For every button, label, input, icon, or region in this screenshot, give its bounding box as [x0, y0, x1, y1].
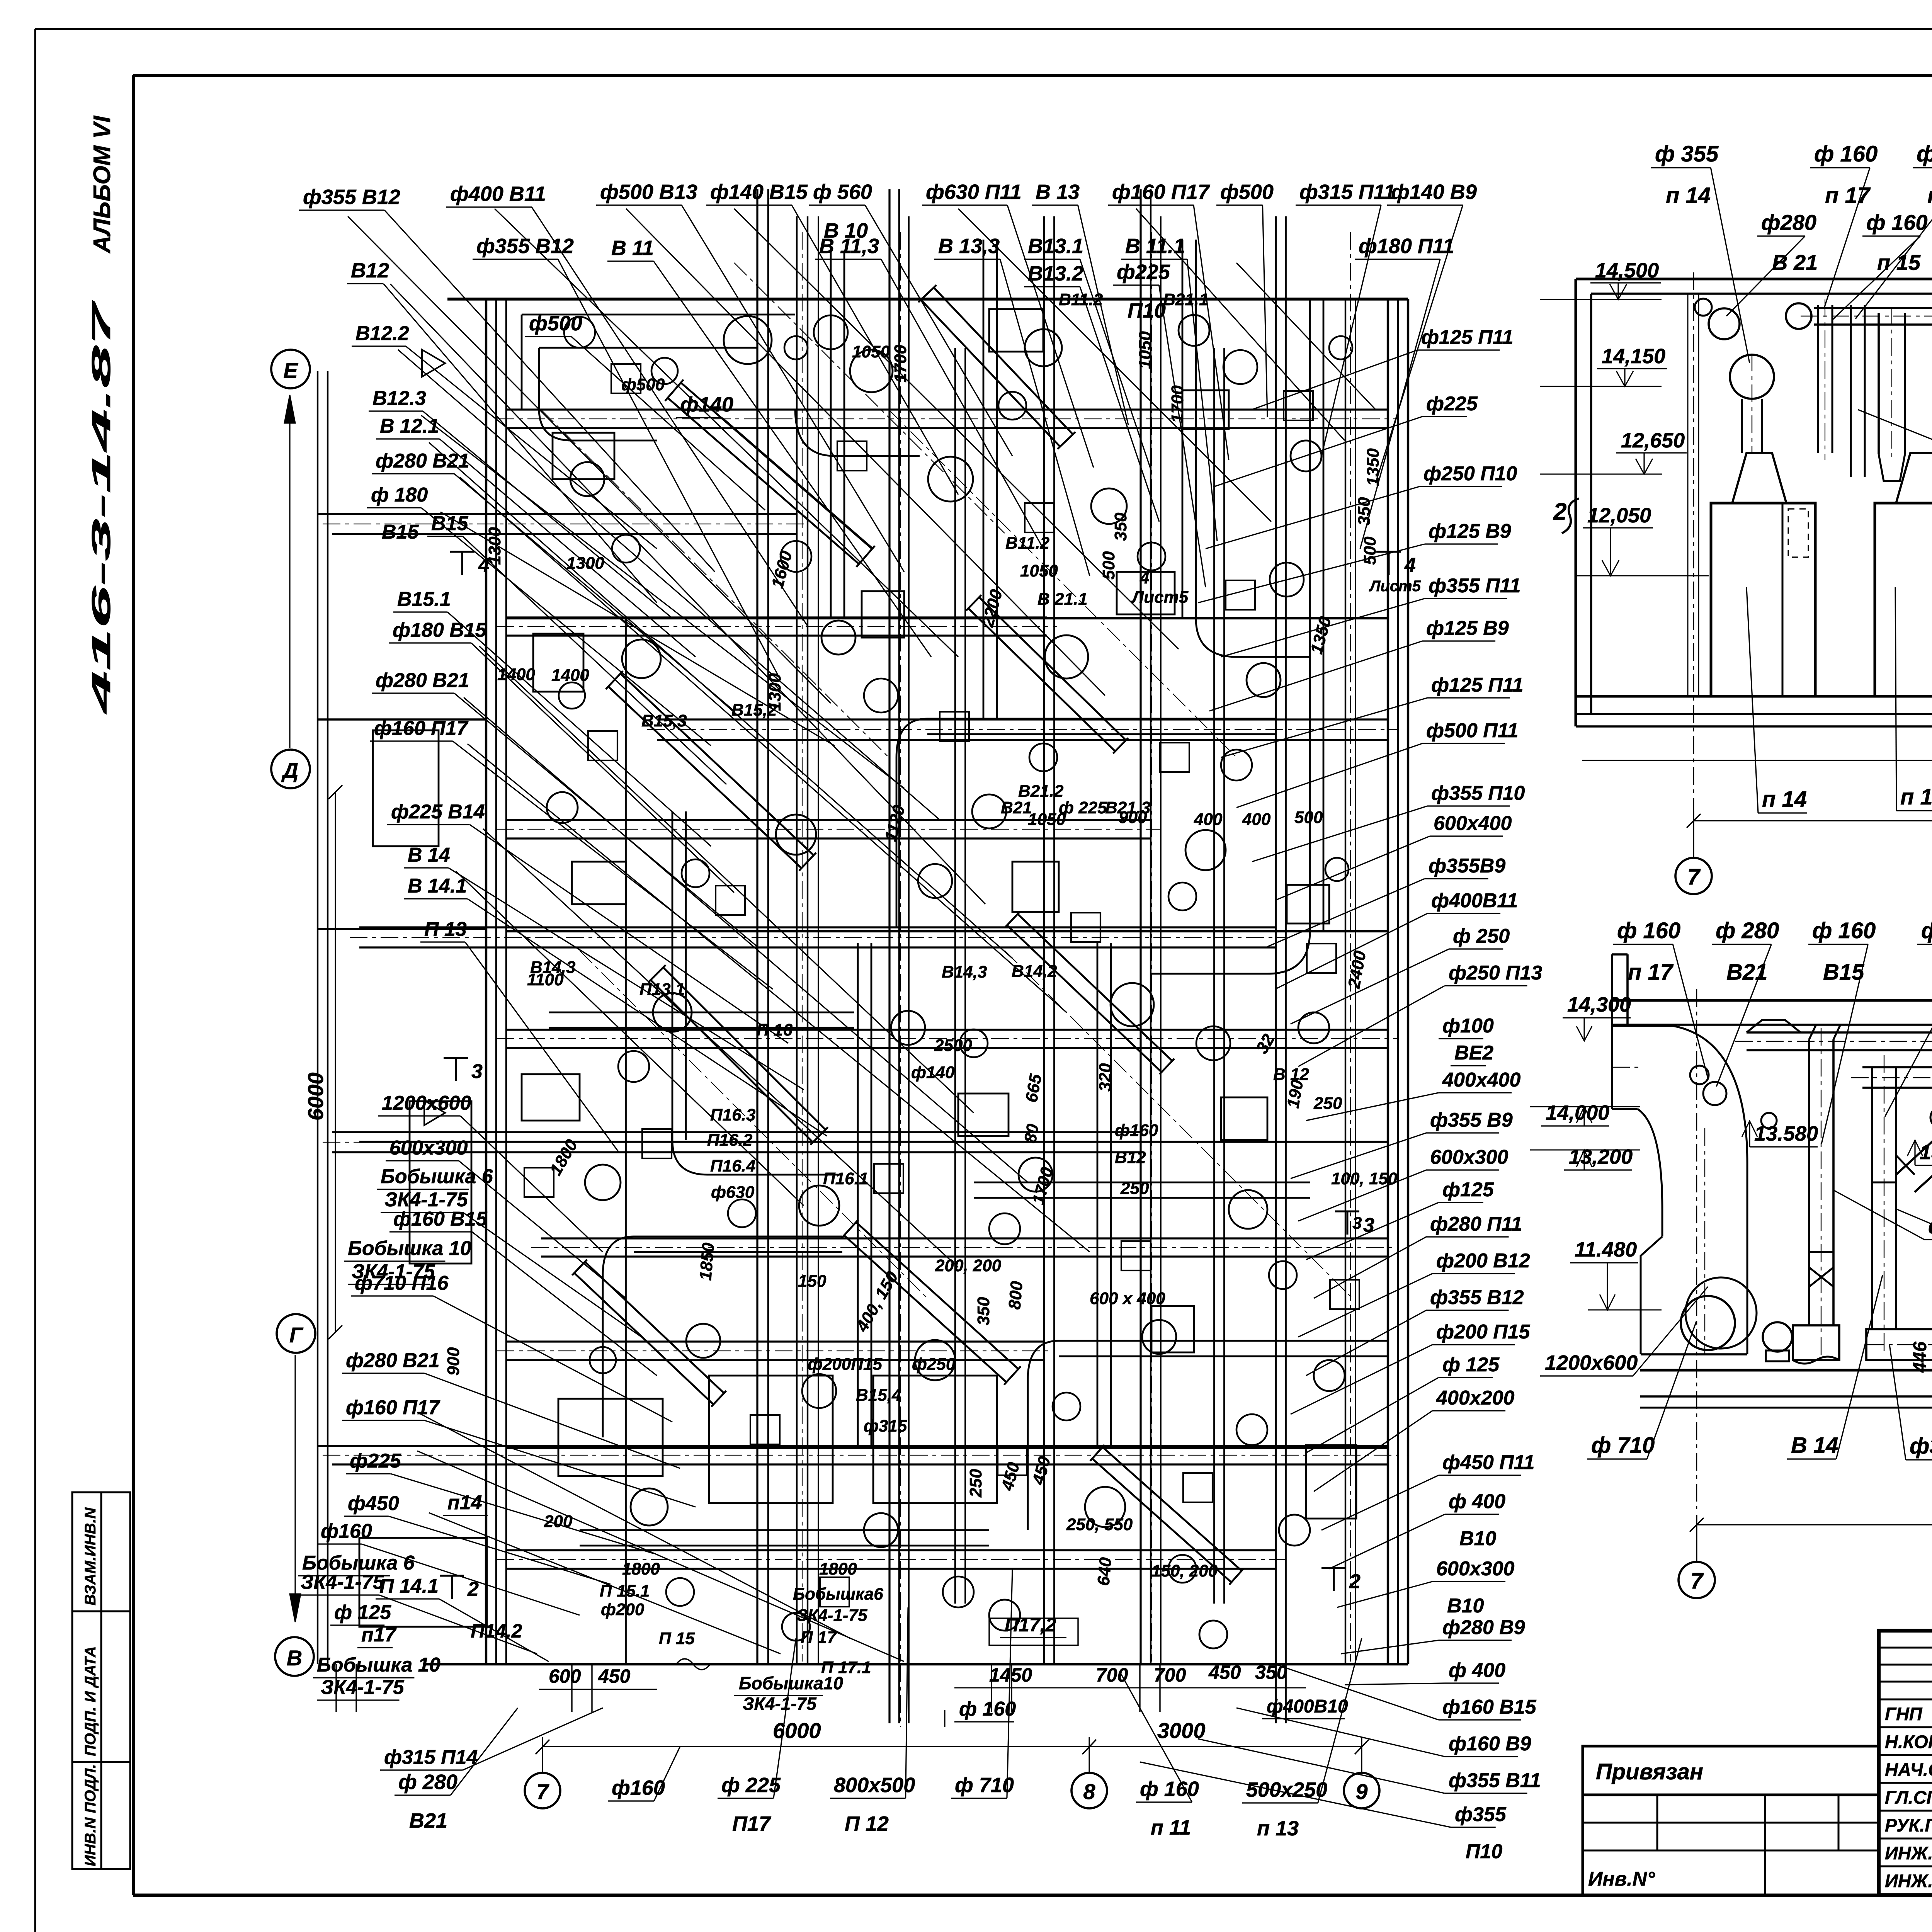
svg-text:В 11,3: В 11,3: [819, 235, 879, 258]
equipment box 2980,3380: [1151, 1306, 1194, 1352]
plan grid bubbles 7 8 9: [542, 1757, 543, 1773]
svg-text:ф 160: ф 160: [1617, 918, 1680, 943]
interior partition walls: [506, 617, 1388, 619]
damper circle В21: [1709, 308, 1740, 339]
svg-text:ф280 П11: ф280 П11: [1430, 1213, 1522, 1235]
svg-text:В 14: В 14: [408, 844, 450, 866]
svg-text:ф140 В15: ф140 В15: [710, 180, 808, 204]
svg-text:ф315 П11: ф315 П11: [1299, 180, 1395, 204]
equipment box 1060,2850: [410, 1101, 471, 1264]
svg-text:Г: Г: [289, 1323, 304, 1347]
svg-text:ЗК4-1-75: ЗК4-1-75: [743, 1694, 817, 1714]
equipment box 2480,2830: [958, 1094, 1009, 1136]
equipment box 1835,3560: [709, 1376, 833, 1503]
svg-text:6000: 6000: [303, 1072, 328, 1121]
svg-text:150, 200: 150, 200: [1151, 1561, 1218, 1580]
duct section circle 2930,2600: [1111, 983, 1154, 1026]
svg-text:9: 9: [1355, 1779, 1367, 1804]
svg-text:450: 450: [598, 1665, 631, 1687]
svg-text:4: 4: [478, 554, 490, 577]
svg-text:600х300: 600х300: [1436, 1558, 1515, 1580]
svg-text:ф315 П14: ф315 П14: [384, 1746, 478, 1769]
svg-text:ф450: ф450: [348, 1492, 399, 1515]
duct run y1330: [332, 513, 796, 515]
duct section circle 2680,3040: [1019, 1158, 1053, 1192]
svg-text:ф160: ф160: [321, 1520, 372, 1543]
svg-text:ф 160: ф 160: [1814, 141, 1878, 167]
equipment box 1445,3620: [558, 1399, 663, 1476]
svg-text:ф125 В9: ф125 В9: [1426, 617, 1509, 639]
section 2-2 column axis 7: [1693, 272, 1694, 811]
svg-text:В: В: [287, 1646, 302, 1670]
svg-text:ф 400: ф 400: [1449, 1490, 1505, 1513]
svg-text:600 х 400: 600 х 400: [1090, 1289, 1165, 1308]
svg-text:ф280 В21: ф280 В21: [376, 669, 469, 692]
section 2-2 left wall: [1575, 279, 1577, 726]
svg-text:416-3-14.87: 416-3-14.87: [87, 300, 116, 715]
duct section circle 3380,1180: [1291, 440, 1321, 471]
svg-text:ПОДП. И ДАТА: ПОДП. И ДАТА: [82, 1646, 99, 1756]
duct run y4012: [506, 1549, 1275, 1551]
section 3-3 floor slab: [1640, 1369, 1932, 1372]
svg-text:ф160: ф160: [1115, 1121, 1158, 1140]
svg-text:ф225 В14: ф225 В14: [391, 801, 485, 823]
section mark 3 left: [444, 1057, 468, 1059]
equipment box 930,3980: [359, 1538, 487, 1627]
svg-text:ф 710: ф 710: [955, 1774, 1014, 1797]
duct section circle 1820,3470: [686, 1324, 720, 1358]
svg-text:ЗК4-1-75: ЗК4-1-75: [321, 1676, 405, 1699]
svg-text:Бобышка 10: Бобышка 10: [317, 1654, 440, 1676]
svg-text:ф160 В9: ф160 В9: [1449, 1733, 1531, 1755]
duct section circle 3000,3460: [1142, 1320, 1176, 1354]
svg-text:В13.1: В13.1: [1028, 235, 1083, 258]
svg-text:7: 7: [536, 1779, 549, 1804]
duct section circle 2870,1310: [1091, 488, 1127, 524]
svg-text:В12: В12: [1115, 1148, 1146, 1167]
duct section circle 3270,1760: [1247, 663, 1281, 697]
svg-text:7: 7: [1687, 864, 1701, 889]
diagonal duct 1700,2520: [651, 980, 813, 1142]
big round duct ф710 elbow: [1612, 1025, 1673, 1027]
svg-text:В21: В21: [409, 1809, 447, 1832]
duct section circle 3400,2660: [1298, 1012, 1329, 1043]
svg-text:350: 350: [974, 1297, 993, 1325]
svg-text:Лист5: Лист5: [1131, 588, 1189, 607]
duct section circle 3090,855: [1179, 315, 1209, 346]
svg-text:ф280 В21: ф280 В21: [346, 1349, 440, 1372]
svg-text:п14: п14: [447, 1492, 482, 1514]
svg-text:700: 700: [1154, 1664, 1186, 1686]
svg-text:В12.3: В12.3: [372, 387, 426, 410]
duct run y1060: [506, 408, 1387, 410]
section 3-3 ceiling slab: [1612, 999, 1932, 1002]
svg-text:ф125 П11: ф125 П11: [1421, 326, 1514, 349]
svg-text:В21: В21: [1001, 798, 1032, 817]
duct section circle 2060,4210: [782, 1613, 810, 1641]
duct section circle 2700,900: [1025, 329, 1062, 366]
svg-text:12,650: 12,650: [1621, 429, 1685, 452]
svg-text:Бобышка6: Бобышка6: [793, 1585, 883, 1604]
svg-text:В12.2: В12.2: [355, 322, 409, 345]
svg-text:ф140 В9: ф140 В9: [1391, 180, 1477, 204]
section 2-2 ground line: [1582, 760, 1932, 761]
svg-text:Д: Д: [281, 758, 298, 782]
svg-text:250: 250: [1313, 1094, 1342, 1113]
unit п17 riser duct: [1878, 313, 1880, 454]
duct section circle 2120,3120: [799, 1185, 839, 1226]
svg-text:ф 160: ф 160: [959, 1698, 1016, 1720]
svg-text:ф200: ф200: [601, 1600, 645, 1619]
svg-text:150: 150: [798, 1272, 827, 1291]
svg-text:п17: п17: [361, 1624, 397, 1646]
svg-text:ф315: ф315: [864, 1417, 907, 1435]
svg-text:В 14: В 14: [1791, 1433, 1838, 1458]
svg-text:3: 3: [1352, 1214, 1362, 1233]
duct run y2400: [359, 926, 1275, 928]
svg-text:п 17: п 17: [1628, 959, 1674, 985]
svg-text:В14,2: В14,2: [1012, 962, 1057, 981]
В15 fan unit at floor: [1793, 1325, 1839, 1360]
svg-text:ф 560: ф 560: [813, 180, 872, 204]
svg-text:ГЛ.СП.: ГЛ.СП.: [1885, 1787, 1932, 1808]
svg-text:12,050: 12,050: [1587, 504, 1651, 527]
axis arrow Д-Е: [289, 398, 290, 748]
duct section circle 1935,880: [724, 316, 772, 364]
svg-text:В 14.1: В 14.1: [408, 875, 467, 897]
svg-text:п 13: п 13: [1257, 1817, 1299, 1840]
svg-text:400: 400: [1242, 810, 1271, 829]
svg-text:13,200: 13,200: [1569, 1145, 1633, 1168]
svg-text:ф160 П17: ф160 П17: [374, 717, 469, 740]
diagonal duct 1745,1010: [668, 398, 859, 564]
svg-text:14,500: 14,500: [1595, 259, 1659, 282]
svg-text:В15: В15: [382, 521, 419, 543]
svg-text:4: 4: [1404, 554, 1416, 577]
equipment box 2560,800: [989, 309, 1043, 352]
svg-text:ф 225: ф 225: [1059, 798, 1107, 817]
row axis Г: [277, 1314, 315, 1353]
svg-text:В10: В10: [1447, 1595, 1484, 1617]
svg-text:ф200 П15: ф200 П15: [1436, 1321, 1531, 1343]
svg-text:Е: Е: [283, 358, 298, 383]
svg-text:400х200: 400х200: [1436, 1387, 1515, 1409]
direction triangles: [422, 350, 445, 377]
svg-text:В 13,3: В 13,3: [938, 235, 1000, 258]
diagonal duct 2400,760: [921, 300, 1060, 447]
svg-text:250, 550: 250, 550: [1066, 1515, 1133, 1534]
svg-text:ф250: ф250: [912, 1355, 956, 1374]
svg-text:ф280 В9: ф280 В9: [1442, 1616, 1525, 1639]
section 2-2 floor slab: [1576, 695, 1932, 698]
svg-text:В14,3: В14,3: [530, 958, 575, 977]
duct section circle 2460,1240: [928, 457, 973, 502]
duct section circle 2420,3520: [915, 1340, 955, 1380]
duct run y3205: [541, 1237, 1387, 1239]
svg-text:ГНП: ГНП: [1885, 1704, 1923, 1724]
diagonal duct 1500,3280: [574, 1273, 713, 1405]
svg-text:ф125 В9: ф125 В9: [1429, 520, 1511, 543]
svg-text:п 14: п 14: [1762, 787, 1807, 812]
svg-text:400х400: 400х400: [1442, 1069, 1521, 1091]
duct section circle 3350,3960: [1279, 1515, 1310, 1546]
svg-text:400: 400: [1194, 810, 1223, 829]
equipment box 1350,2780: [522, 1074, 580, 1121]
svg-text:В21: В21: [1726, 959, 1767, 985]
svg-text:13,530: 13,530: [1920, 1141, 1932, 1164]
svg-text:ф355 П11: ф355 П11: [1429, 575, 1521, 597]
svg-text:В21.1: В21.1: [1163, 290, 1208, 309]
svg-text:АЛЬБОМ VI: АЛЬБОМ VI: [89, 115, 116, 254]
svg-text:ф 180: ф 180: [371, 484, 428, 506]
svg-text:ф500 В13: ф500 В13: [600, 180, 697, 204]
plan centerline risers: [802, 232, 803, 1662]
equipment box 1430,1120: [553, 433, 614, 479]
svg-text:800: 800: [1005, 1280, 1026, 1310]
svg-text:Бобышка 10: Бобышка 10: [348, 1237, 471, 1260]
svg-text:900: 900: [444, 1347, 463, 1376]
row axis В: [275, 1637, 314, 1676]
svg-text:П 13: П 13: [424, 918, 467, 940]
plan dashed diagonals: [541, 410, 889, 757]
duct section circle 1740,2620: [653, 993, 692, 1032]
section mark 4 right: [1376, 551, 1401, 553]
svg-text:Привязан: Привязан: [1596, 1759, 1703, 1784]
duct section circle 3120,2200: [1185, 830, 1226, 870]
section 3-3 left wall stub: [1611, 954, 1613, 1109]
section cut squiggle: [1562, 498, 1579, 533]
svg-text:2: 2: [467, 1578, 479, 1600]
svg-text:ф 160: ф 160: [1812, 918, 1876, 943]
svg-text:200: 200: [544, 1512, 573, 1531]
duct section circle 1680,3900: [631, 1488, 668, 1526]
duct section circle 2350,2660: [891, 1011, 925, 1045]
equipment box 2230,1530: [862, 591, 904, 638]
svg-text:100, 150: 100, 150: [1331, 1169, 1398, 1188]
paper outer edge: [35, 28, 1932, 30]
ф710 inlet circles: [1685, 1277, 1757, 1349]
grid bubbles 7 8 9: [1693, 831, 1694, 858]
svg-text:П10: П10: [1466, 1840, 1502, 1863]
equipment box 3380,3740: [1306, 1445, 1356, 1519]
svg-text:600х300: 600х300: [1430, 1146, 1509, 1168]
svg-text:П 16: П 16: [757, 1020, 793, 1039]
svg-text:ф250 П10: ф250 П10: [1423, 463, 1517, 485]
AHU unit п15: [1875, 503, 1932, 696]
svg-text:200, 200: 200, 200: [935, 1256, 1002, 1275]
svg-text:ф 225: ф 225: [721, 1774, 781, 1797]
second run with oval sections: [1862, 1066, 1932, 1068]
svg-text:80: 80: [1021, 1122, 1043, 1145]
row axis Е: [271, 350, 310, 388]
drawing frame: [133, 74, 1932, 77]
diagonal duct 2200,3180: [844, 1235, 1007, 1382]
duct run y2930: [332, 1131, 1141, 1133]
svg-text:ВЕ2: ВЕ2: [1454, 1042, 1493, 1064]
svg-text:1800: 1800: [622, 1560, 660, 1578]
duct section circle 1560,3060: [585, 1165, 621, 1200]
svg-text:ф225: ф225: [1426, 393, 1478, 415]
svg-text:ф630 П11: ф630 П11: [926, 180, 1022, 204]
svg-text:ф 225: ф 225: [1921, 918, 1932, 943]
binding table: [1583, 1746, 1879, 1795]
unit п15 riser ducts: [1817, 305, 1819, 453]
svg-text:ф 280: ф 280: [1716, 918, 1779, 943]
equipment box 3330,2290: [1287, 885, 1329, 923]
section 3-3 dimension line: [1697, 1524, 1932, 1525]
svg-text:ф450 П11: ф450 П11: [1442, 1451, 1535, 1474]
svg-text:14,150: 14,150: [1602, 345, 1665, 368]
svg-text:Бобышка 6: Бобышка 6: [381, 1165, 493, 1188]
svg-text:ИНЖ.: ИНЖ.: [1885, 1843, 1932, 1863]
svg-text:Инв.N°: Инв.N°: [1588, 1868, 1655, 1890]
svg-text:ИНВ.N ПОДЛ.: ИНВ.N ПОДЛ.: [82, 1764, 99, 1867]
svg-text:ф160 П17: ф160 П17: [1112, 180, 1211, 204]
svg-text:640: 640: [1094, 1556, 1115, 1587]
svg-text:В 21.1: В 21.1: [1037, 590, 1088, 609]
svg-text:1050: 1050: [1020, 561, 1058, 580]
svg-text:Н.КОНТР: Н.КОНТР: [1885, 1731, 1932, 1752]
svg-text:п 15: п 15: [1900, 784, 1932, 810]
duct section circle 1660,1705: [622, 639, 661, 678]
equipment box 2620,2230: [1012, 862, 1059, 912]
svg-text:446: 446: [1910, 1342, 1930, 1373]
svg-text:ф355 В11: ф355 В11: [1449, 1769, 1541, 1792]
svg-text:ф250 П13: ф250 П13: [1449, 962, 1543, 984]
section mark 4 top: [450, 551, 474, 553]
svg-text:ф355В9: ф355В9: [1429, 855, 1505, 877]
В14 bottom elbow box: [1866, 1329, 1932, 1360]
svg-text:ф 125: ф 125: [334, 1601, 391, 1624]
svg-text:ф100: ф100: [1442, 1015, 1494, 1037]
svg-text:600х300: 600х300: [389, 1137, 468, 1159]
svg-text:ф355 П10: ф355 П10: [1431, 782, 1525, 804]
svg-text:ф355: ф355: [1455, 1803, 1507, 1826]
plan filler circles: [564, 317, 595, 348]
svg-text:ф160 П17: ф160 П17: [346, 1396, 440, 1419]
svg-text:П10: П10: [1128, 299, 1166, 322]
svg-text:П 12: П 12: [845, 1812, 889, 1835]
side stamp table: [72, 1492, 130, 1869]
plan bottom wall: [425, 1663, 1408, 1666]
equipment box 965,1890: [373, 730, 439, 846]
svg-text:ф315: ф315: [1910, 1434, 1932, 1459]
below-wall duct stubs: [335, 1664, 337, 1712]
svg-text:350: 350: [1111, 512, 1130, 541]
svg-text:ф500 П11: ф500 П11: [1426, 719, 1519, 742]
svg-text:ф 250: ф 250: [1453, 925, 1510, 947]
svg-text:ф 160: ф 160: [1140, 1777, 1199, 1801]
plan bottom dimension line: [543, 1746, 1362, 1747]
svg-text:600х400: 600х400: [1434, 812, 1512, 835]
plan top wall: [447, 298, 1408, 301]
svg-text:п 17: п 17: [1927, 183, 1932, 208]
svg-text:ф280 В21: ф280 В21: [376, 450, 469, 472]
duct section circle 2760,1700: [1045, 635, 1088, 679]
svg-text:1200х600: 1200х600: [382, 1092, 471, 1114]
diagonal branch duct: [1896, 1078, 1932, 1175]
svg-text:ф160 В15: ф160 В15: [1442, 1696, 1537, 1718]
svg-text:РУК.ГР.: РУК.ГР.: [1885, 1815, 1932, 1835]
svg-text:В 12.1: В 12.1: [380, 415, 439, 437]
duct section circle 3140,4230: [1199, 1621, 1227, 1648]
svg-text:П17,2: П17,2: [1005, 1614, 1056, 1636]
fan circle п14: [1730, 355, 1774, 399]
AHU unit п14: [1711, 503, 1815, 696]
svg-text:250: 250: [966, 1469, 985, 1498]
svg-text:320: 320: [1096, 1063, 1115, 1092]
svg-text:500: 500: [1099, 551, 1118, 580]
svg-text:В12: В12: [351, 259, 389, 282]
svg-text:1800: 1800: [819, 1560, 857, 1578]
svg-text:ф500: ф500: [1220, 180, 1274, 204]
svg-text:4: 4: [1139, 568, 1149, 587]
svg-text:ф 125: ф 125: [1442, 1354, 1500, 1376]
svg-text:П 17.1: П 17.1: [821, 1658, 871, 1677]
top run along ceiling: [1747, 1031, 1932, 1034]
plan filler elbows: [539, 409, 657, 440]
svg-text:ф180 В15: ф180 В15: [393, 619, 487, 641]
svg-text:ф 160: ф 160: [1866, 210, 1928, 235]
svg-text:8: 8: [1083, 1779, 1095, 1804]
duct section circle 2560,2100: [972, 794, 1006, 828]
svg-text:ф200 В12: ф200 В12: [1436, 1250, 1530, 1272]
svg-text:ф400В10: ф400В10: [1267, 1696, 1348, 1717]
svg-text:П 15: П 15: [659, 1629, 695, 1648]
svg-text:1700: 1700: [891, 345, 910, 383]
section mark 3 right: [1335, 1211, 1359, 1213]
svg-text:1350: 1350: [1364, 448, 1383, 486]
svg-text:7: 7: [1690, 1568, 1704, 1594]
duct section circle 1520,1240: [570, 462, 604, 496]
svg-text:350: 350: [1255, 1662, 1287, 1683]
svg-text:ф 160: ф 160: [1917, 141, 1932, 167]
duct section circle 1455,2090: [547, 792, 578, 823]
svg-text:НАЧ.ОТД: НАЧ.ОТД: [1885, 1759, 1932, 1780]
svg-text:В15: В15: [1823, 959, 1864, 985]
svg-text:2500: 2500: [934, 1036, 972, 1055]
duct run y2665: [506, 1029, 1387, 1031]
svg-text:ф 400: ф 400: [1449, 1659, 1505, 1682]
svg-text:ф 710: ф 710: [1591, 1433, 1655, 1458]
svg-text:ЗК4-1-75: ЗК4-1-75: [301, 1571, 384, 1594]
svg-text:В21.2: В21.2: [1018, 782, 1064, 801]
duct run y2122: [506, 819, 1151, 821]
svg-text:п 14: п 14: [1666, 183, 1711, 208]
svg-text:ф 225: ф 225: [1928, 1214, 1932, 1238]
svg-text:В15,3: В15,3: [641, 711, 687, 730]
section mark 2 bottom right: [1321, 1567, 1346, 1569]
svg-text:В21.3: В21.3: [1105, 798, 1150, 817]
svg-text:ВЗАМ.ИНВ.N: ВЗАМ.ИНВ.N: [82, 1507, 99, 1605]
riser В14: [1871, 1066, 1873, 1329]
duct section circle 2600,4180: [989, 1600, 1020, 1631]
svg-text:ИНЖ.: ИНЖ.: [1885, 1871, 1932, 1891]
svg-text:П17: П17: [732, 1812, 772, 1835]
grid bubbles 7 8 9 section 3-3: [1696, 1535, 1697, 1562]
svg-text:500: 500: [1294, 808, 1323, 827]
interior column on axis 7: [1687, 294, 1689, 696]
svg-text:П14.2: П14.2: [471, 1620, 522, 1642]
svg-text:ф400В11: ф400В11: [1431, 889, 1518, 912]
svg-text:В15: В15: [431, 512, 468, 535]
svg-text:Лист5: Лист5: [1369, 578, 1421, 595]
svg-text:ф500: ф500: [621, 375, 665, 394]
svg-text:ф180 П11: ф180 П11: [1359, 235, 1454, 258]
duct section circle 2860,3900: [1085, 1487, 1125, 1527]
svg-text:ф710 П16: ф710 П16: [355, 1272, 449, 1294]
svg-text:В15,4: В15,4: [856, 1386, 901, 1405]
